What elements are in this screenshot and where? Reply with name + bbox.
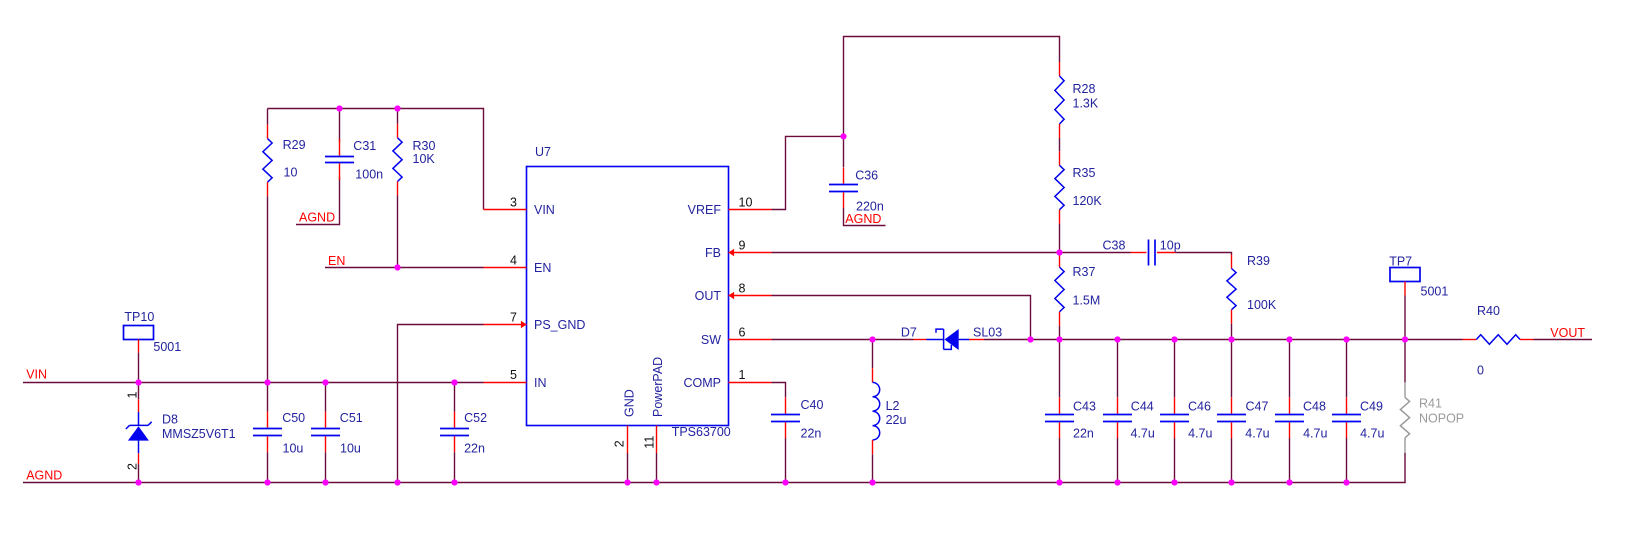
- wire R35 to FB node: [1059, 224, 1061, 253]
- junction C51 AGND: [322, 479, 328, 485]
- svg-text:4.7u: 4.7u: [1131, 426, 1155, 440]
- capacitor C48: [1289, 398, 1291, 414]
- svg-text:C49: C49: [1360, 399, 1383, 413]
- svg-text:100n: 100n: [355, 168, 383, 182]
- pin 5 IN stub: [484, 382, 527, 384]
- wire C47 leads: [1231, 340, 1233, 398]
- wire R30 top: [397, 109, 399, 124]
- svg-text:AGND: AGND: [299, 210, 335, 224]
- capacitor C40: [785, 398, 787, 414]
- wire R28-R35 link: [1059, 138, 1061, 151]
- resistor R30: [397, 124, 399, 138]
- junction C51 VIN rail: [322, 379, 328, 385]
- svg-text:1.5M: 1.5M: [1073, 294, 1101, 308]
- svg-text:R35: R35: [1073, 166, 1096, 180]
- svg-text:D8: D8: [162, 413, 178, 427]
- test point TP7: [1390, 268, 1420, 282]
- junction C50 VIN rail: [264, 379, 270, 385]
- svg-text:C44: C44: [1131, 399, 1154, 413]
- diode D8 zener: [138, 399, 140, 412]
- junction C48 AGND: [1286, 479, 1292, 485]
- capacitor C47: [1231, 398, 1233, 414]
- svg-text:C52: C52: [464, 411, 487, 425]
- svg-text:OUT: OUT: [695, 289, 722, 303]
- capacitor C50: [267, 412, 269, 428]
- junction C44 AGND: [1114, 479, 1120, 485]
- pin 6 SW stub: [729, 339, 772, 341]
- pin 8 OUT stub: [729, 295, 772, 297]
- svg-text:C43: C43: [1073, 399, 1096, 413]
- junction OUT SW rail: [1027, 336, 1033, 342]
- svg-text:C40: C40: [801, 398, 824, 412]
- junction TP7 R41 rail: [1402, 336, 1408, 342]
- junction PowerPAD AGND: [653, 479, 659, 485]
- svg-text:1: 1: [125, 392, 139, 399]
- wire SW to diode: [772, 339, 914, 341]
- svg-text:22n: 22n: [1073, 426, 1094, 440]
- junction C40 AGND: [782, 479, 788, 485]
- svg-text:TP7: TP7: [1389, 254, 1412, 268]
- wire VREF to C36 node: [772, 136, 844, 209]
- diode D7 schottky SL03: [914, 339, 927, 341]
- pin 9 FB stub: [729, 252, 772, 254]
- junction TP10 VIN rail: [135, 379, 141, 385]
- svg-text:C36: C36: [855, 169, 878, 183]
- wire C43 leads: [1059, 340, 1061, 398]
- wire C31 top: [339, 109, 341, 143]
- resistor R28: [1059, 62, 1061, 76]
- svg-text:VREF: VREF: [688, 203, 722, 217]
- capacitor C44: [1117, 398, 1119, 414]
- svg-text:C48: C48: [1303, 399, 1326, 413]
- pin 4 EN stub: [484, 267, 527, 269]
- wire L2 top: [872, 340, 874, 369]
- wire TP10 to VIN rail: [138, 353, 140, 383]
- svg-text:C51: C51: [340, 411, 363, 425]
- svg-text:9: 9: [739, 238, 746, 252]
- svg-text:VIN: VIN: [26, 368, 47, 382]
- svg-text:10p: 10p: [1160, 239, 1181, 253]
- wire top-left bus (R29 top to VIN pin): [268, 109, 484, 210]
- svg-text:3: 3: [510, 196, 517, 210]
- svg-text:10K: 10K: [413, 152, 436, 166]
- svg-text:220n: 220n: [856, 199, 884, 213]
- wire R41 bottom to AGND rail: [1404, 453, 1406, 483]
- wire C52 leads: [454, 383, 456, 412]
- svg-text:7: 7: [510, 310, 517, 324]
- svg-text:2: 2: [613, 440, 627, 447]
- svg-text:U7: U7: [535, 145, 551, 159]
- wire VIN rail: [23, 382, 484, 384]
- junction R37 C43 rail: [1056, 336, 1062, 342]
- junction L2 SW rail: [869, 336, 875, 342]
- resistor R39: [1231, 255, 1233, 269]
- svg-text:5: 5: [510, 368, 517, 382]
- svg-text:FB: FB: [705, 246, 721, 260]
- junction C52 AGND: [451, 479, 457, 485]
- junction R30 EN: [394, 264, 400, 270]
- wire after R40 to VOUT: [1534, 339, 1593, 341]
- junction C49 AGND: [1343, 479, 1349, 485]
- wire L2 bottom: [872, 454, 874, 482]
- svg-text:TPS63700: TPS63700: [672, 425, 731, 439]
- svg-text:R40: R40: [1477, 304, 1500, 318]
- svg-text:R29: R29: [283, 138, 306, 152]
- wire C38 to R39: [1176, 253, 1232, 255]
- svg-text:11: 11: [643, 436, 657, 449]
- wire C46 leads: [1174, 340, 1176, 398]
- svg-text:22n: 22n: [464, 441, 485, 455]
- wire FB node to C38: [1060, 252, 1131, 254]
- junction L2 AGND: [869, 479, 875, 485]
- svg-text:D7: D7: [901, 326, 917, 340]
- svg-text:4: 4: [510, 253, 517, 267]
- junction C44 rail: [1114, 336, 1120, 342]
- svg-text:120K: 120K: [1073, 194, 1103, 208]
- capacitor C46: [1174, 398, 1176, 414]
- svg-text:5001: 5001: [153, 340, 181, 354]
- pin 1 COMP stub: [729, 382, 772, 384]
- svg-text:C38: C38: [1103, 239, 1126, 253]
- wire TP7 to VOUT rail: [1404, 296, 1406, 340]
- wire FB: [772, 252, 1060, 254]
- svg-text:1: 1: [739, 368, 746, 382]
- svg-text:IN: IN: [534, 376, 547, 390]
- wire C40 bottom: [785, 438, 787, 483]
- svg-text:VOUT: VOUT: [1550, 326, 1585, 340]
- svg-text:GND: GND: [623, 389, 637, 417]
- svg-text:R37: R37: [1073, 265, 1096, 279]
- svg-text:PowerPAD: PowerPAD: [651, 357, 665, 417]
- pin 3 VIN stub: [484, 209, 527, 211]
- svg-text:22u: 22u: [886, 413, 907, 427]
- junction C47 AGND: [1228, 479, 1234, 485]
- wire AGND rail: [23, 482, 1406, 484]
- wire C44 leads: [1117, 340, 1119, 398]
- svg-text:10u: 10u: [340, 441, 361, 455]
- svg-text:C31: C31: [353, 139, 376, 153]
- resistor R37: [1059, 253, 1061, 267]
- wire R37 to VOUT rail: [1059, 326, 1061, 340]
- svg-text:2: 2: [125, 463, 139, 470]
- capacitor C43: [1059, 398, 1061, 414]
- capacitor C51: [325, 412, 327, 428]
- svg-text:EN: EN: [534, 261, 551, 275]
- pin 10 VREF stub: [729, 209, 772, 211]
- wire C51 leads: [325, 383, 327, 412]
- pin 7 PS_GND stub: [484, 324, 527, 326]
- test point TP10: [124, 326, 154, 340]
- junction C52 VIN rail: [451, 379, 457, 385]
- svg-text:R39: R39: [1247, 254, 1270, 268]
- svg-text:TP10: TP10: [124, 310, 154, 324]
- resistor R35: [1059, 151, 1061, 165]
- wire PowerPAD pin to AGND rail: [656, 453, 658, 483]
- pin 2 GND stub: [627, 426, 629, 454]
- capacitor C49: [1346, 398, 1348, 414]
- svg-text:4.7u: 4.7u: [1303, 426, 1327, 440]
- svg-text:100K: 100K: [1247, 298, 1277, 312]
- wire C36 top: [843, 136, 845, 167]
- capacitor C31: [339, 139, 341, 156]
- svg-text:4.7u: 4.7u: [1188, 426, 1212, 440]
- svg-text:10: 10: [739, 196, 753, 210]
- junction C49 rail: [1343, 336, 1349, 342]
- svg-text:4.7u: 4.7u: [1245, 426, 1269, 440]
- junction C46 rail: [1171, 336, 1177, 342]
- junction VREF C36: [840, 133, 846, 139]
- wire R41 top: [1404, 340, 1406, 383]
- svg-text:C46: C46: [1188, 399, 1211, 413]
- resistor R40 horizontal: [1463, 339, 1477, 341]
- wire C48 leads: [1289, 340, 1291, 398]
- svg-text:5001: 5001: [1421, 284, 1449, 298]
- svg-text:COMP: COMP: [684, 376, 722, 390]
- svg-text:4.7u: 4.7u: [1360, 426, 1384, 440]
- wire D8 top: [138, 383, 140, 400]
- wire OUT: [772, 296, 1031, 340]
- wire D8 bottom: [138, 464, 140, 482]
- wire R30 to EN: [397, 196, 399, 268]
- svg-text:0: 0: [1477, 363, 1484, 377]
- wire C31 to AGND stub: [296, 177, 340, 225]
- resistor R29: [267, 125, 269, 139]
- svg-text:R41: R41: [1419, 397, 1442, 411]
- resistor R41 NOPOP: [1404, 382, 1406, 397]
- junction R30 top bus: [394, 105, 400, 111]
- svg-text:8: 8: [739, 281, 746, 295]
- wire C50 leads: [267, 383, 269, 412]
- svg-text:1.3K: 1.3K: [1073, 97, 1099, 111]
- op-amp U7 TPS63700 box: [527, 167, 729, 426]
- svg-text:VIN: VIN: [534, 203, 555, 217]
- wire diode to VOUT rail: [984, 339, 1463, 341]
- svg-text:C47: C47: [1246, 399, 1269, 413]
- svg-text:EN: EN: [328, 254, 345, 268]
- svg-text:C50: C50: [282, 411, 305, 425]
- svg-text:SW: SW: [701, 333, 721, 347]
- junction PS_GND AGND: [394, 479, 400, 485]
- svg-text:10u: 10u: [283, 441, 304, 455]
- junction GND pin AGND: [624, 479, 630, 485]
- wire PS_GND to AGND: [398, 325, 484, 483]
- svg-text:PS_GND: PS_GND: [534, 318, 585, 332]
- inductor L2: [872, 368, 874, 382]
- junction C46 AGND: [1171, 479, 1177, 485]
- wire R39 to VOUT rail: [1231, 324, 1233, 340]
- svg-text:L2: L2: [886, 399, 900, 413]
- svg-text:NOPOP: NOPOP: [1419, 412, 1464, 426]
- svg-text:SL03: SL03: [973, 326, 1002, 340]
- svg-text:10: 10: [284, 166, 298, 180]
- junction D8 AGND: [135, 479, 141, 485]
- wire COMP to C40: [772, 383, 786, 398]
- svg-text:6: 6: [739, 325, 746, 339]
- wire C49 leads: [1346, 340, 1348, 398]
- wire C36 to AGND stub: [844, 208, 886, 226]
- capacitor C36: [843, 168, 845, 184]
- svg-text:R28: R28: [1073, 82, 1096, 96]
- junction C43 AGND: [1056, 479, 1062, 485]
- wire top loop: [844, 37, 1060, 137]
- svg-text:MMSZ5V6T1: MMSZ5V6T1: [162, 427, 236, 441]
- junction C48 rail: [1286, 336, 1292, 342]
- svg-text:22n: 22n: [801, 426, 822, 440]
- wire EN: [325, 267, 484, 269]
- pin 11 PowerPAD stub: [656, 426, 658, 454]
- wire R29 to VIN rail: [267, 109, 269, 125]
- wire GND pin to AGND rail: [627, 453, 629, 483]
- svg-text:AGND: AGND: [26, 469, 62, 483]
- capacitor C38: [1131, 252, 1147, 254]
- capacitor C52: [454, 412, 456, 428]
- svg-text:AGND: AGND: [845, 212, 881, 226]
- junction C31 top bus: [336, 105, 342, 111]
- junction FB node: [1056, 249, 1062, 255]
- junction R39 C47 rail: [1228, 336, 1234, 342]
- junction C50 AGND: [264, 479, 270, 485]
